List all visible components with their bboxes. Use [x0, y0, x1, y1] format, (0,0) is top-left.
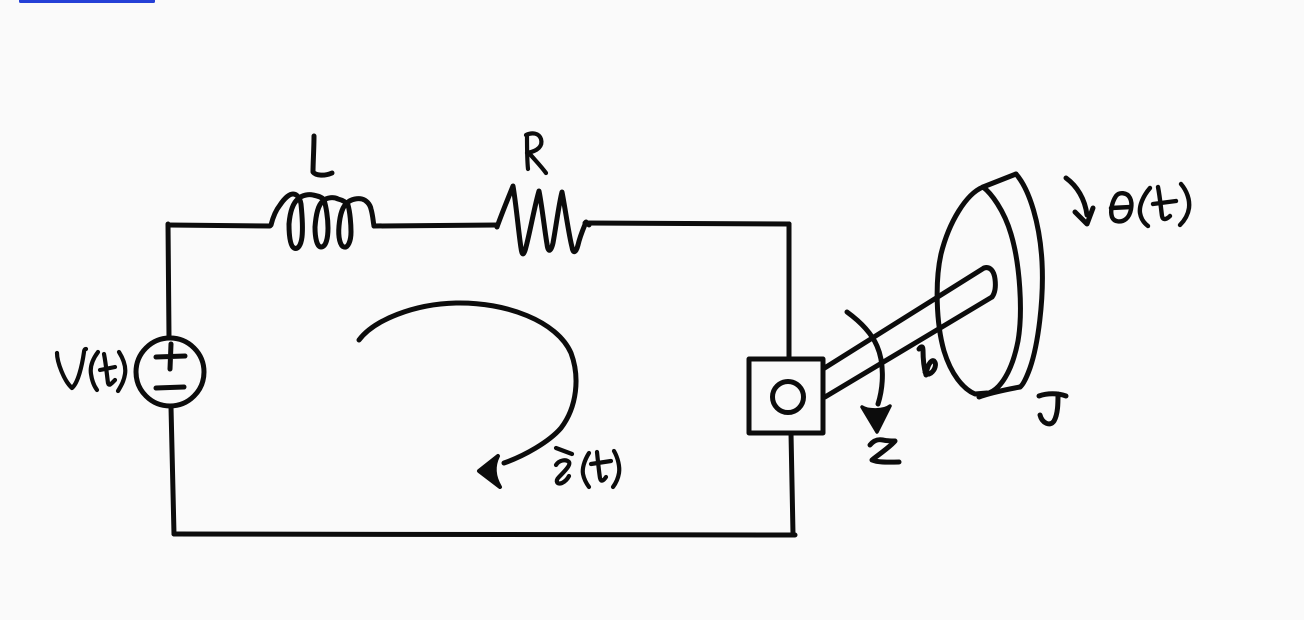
disk front face left arc [937, 187, 987, 394]
loop current arrow [359, 303, 576, 463]
loop arrowhead [479, 456, 500, 487]
resistor R [497, 186, 589, 254]
disk rim bottom edge [979, 387, 1020, 397]
wire right vertical top [787, 224, 792, 359]
toolbar accent bar [19, 0, 155, 3]
label L [313, 136, 332, 175]
torque arrow curve [847, 312, 882, 404]
shaft end cap [984, 268, 995, 297]
motor circle [773, 382, 804, 413]
minus sign [156, 387, 184, 388]
inductor L [271, 194, 374, 248]
label i(t) [556, 448, 619, 487]
theta arrow curve [1066, 178, 1087, 215]
plus sign [156, 344, 185, 369]
disk rim top edge [983, 174, 1016, 187]
wire right vertical bottom [791, 433, 793, 534]
wire left vertical top [168, 224, 169, 337]
label J [1039, 394, 1066, 424]
label R [526, 133, 546, 173]
theta arrowhead [1075, 208, 1093, 224]
torque arrowhead [862, 406, 890, 432]
label b [919, 347, 935, 375]
voltage source V(t) [136, 338, 204, 406]
label theta(t) [1111, 184, 1189, 226]
wire left vertical bottom [171, 407, 174, 534]
motor box [749, 359, 823, 433]
disk rim back arc [1016, 174, 1042, 387]
wire top middle segment [374, 225, 497, 226]
disk front face right arc [983, 187, 1020, 393]
shaft bottom line [825, 297, 992, 397]
label tau [870, 440, 899, 463]
label V(t) [57, 349, 125, 391]
wire top left segment [168, 225, 270, 226]
shaft top line [823, 268, 984, 369]
wire bottom horizontal [174, 534, 795, 535]
wire top right segment [585, 223, 789, 224]
